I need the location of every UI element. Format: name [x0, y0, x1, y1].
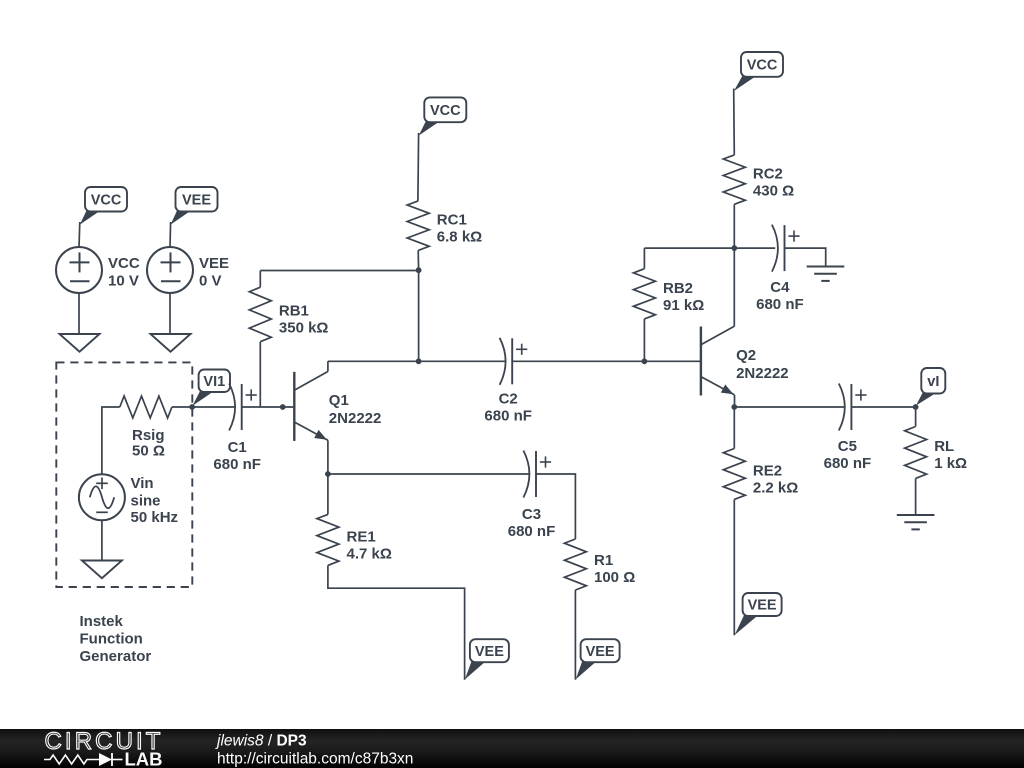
- resistor RE2 2.2 kΩ: [723, 407, 798, 499]
- svg-text:Generator: Generator: [80, 648, 152, 665]
- wire (RE1 to VEE flag): [328, 565, 465, 679]
- svg-text:sine: sine: [131, 493, 161, 510]
- resistor RC2 430 Ω: [723, 155, 794, 248]
- svg-text:680 nF: 680 nF: [756, 296, 804, 313]
- ground (below VCC source): [60, 334, 100, 352]
- net flag VEE (supply): [171, 187, 218, 225]
- net flag vI: [916, 368, 945, 406]
- svg-text:RE1: RE1: [347, 529, 376, 546]
- node (Q1 base junction): [280, 404, 286, 410]
- voltage source Vin sine 50 kHz: [79, 474, 178, 526]
- resistor RB2 91 kΩ: [633, 248, 704, 361]
- net flag VEE (below RE1): [465, 639, 509, 679]
- label Instek Function Generator: [80, 613, 152, 665]
- wire (C3 to R1): [536, 474, 575, 539]
- svg-text:RL: RL: [934, 438, 954, 455]
- net flag VCC (left supply): [80, 187, 127, 225]
- ground (RL): [897, 515, 935, 529]
- svg-text:VEE: VEE: [182, 192, 211, 208]
- wire (VEE flag to source): [169, 222, 172, 247]
- wire (RB2 top to RC2 node): [644, 247, 734, 249]
- svg-text:VEE: VEE: [199, 255, 229, 272]
- net flag VEE (below R1): [576, 639, 620, 679]
- svg-text:C5: C5: [838, 438, 857, 455]
- svg-text:6.8 kΩ: 6.8 kΩ: [437, 228, 482, 245]
- svg-text:R1: R1: [594, 552, 613, 569]
- dashed enclosure: function generator: [56, 362, 192, 587]
- resistor RC1 6.8 kΩ: [407, 201, 482, 270]
- svg-text:100 Ω: 100 Ω: [594, 569, 635, 586]
- wire (RE2 to VEE flag): [733, 499, 735, 635]
- capacitor C3 680 nF: [508, 451, 556, 540]
- capacitor C1 680 nF: [213, 384, 261, 473]
- wire (C2 to Q2 base): [512, 360, 701, 362]
- footer bar: [0, 729, 1024, 768]
- svg-text:0 V: 0 V: [199, 273, 222, 290]
- voltage source VEE 0 V: [147, 247, 229, 293]
- resistor RE1 4.7 kΩ: [317, 474, 392, 565]
- svg-text:vI: vI: [927, 374, 939, 390]
- wire (VCC source to ground): [78, 293, 80, 334]
- capacitor C4 680 nF: [756, 225, 804, 314]
- node (RC2/RB2/C4 junction): [731, 245, 737, 251]
- net flag VEE (below RE2): [735, 593, 782, 635]
- svg-text:jlewis8 / DP3: jlewis8 / DP3: [215, 733, 307, 750]
- wire (VEE source to ground): [169, 293, 171, 334]
- svg-text:4.7 kΩ: 4.7 kΩ: [347, 546, 392, 563]
- svg-text:C3: C3: [522, 506, 541, 523]
- svg-text:VEE: VEE: [475, 644, 504, 660]
- svg-text:1 kΩ: 1 kΩ: [934, 455, 967, 472]
- transistor Q1 2N2222: [294, 361, 381, 474]
- resistor RL 1 kΩ: [905, 407, 967, 478]
- transistor Q2 2N2222: [701, 326, 789, 407]
- svg-text:VCC: VCC: [108, 255, 140, 272]
- wire (Vin to ground): [101, 520, 103, 560]
- svg-text:VI1: VI1: [203, 374, 225, 390]
- ground (below Vin): [82, 561, 122, 579]
- wire (RC1 node to collector rail): [418, 270, 420, 361]
- svg-text:350 kΩ: 350 kΩ: [279, 320, 329, 337]
- svg-text:VCC: VCC: [430, 103, 461, 119]
- svg-text:VEE: VEE: [586, 644, 615, 660]
- wire (Q2 emitter to C5): [734, 406, 845, 408]
- node vI (output junction): [913, 404, 919, 410]
- svg-text:680 nF: 680 nF: [824, 455, 872, 472]
- svg-text:Rsig: Rsig: [132, 427, 165, 444]
- svg-text:2.2 kΩ: 2.2 kΩ: [753, 480, 798, 497]
- resistor R1 100 Ω: [564, 539, 635, 590]
- svg-text:10 V: 10 V: [108, 273, 139, 290]
- svg-text:680 nF: 680 nF: [213, 456, 261, 473]
- wire (C4 to ground): [785, 248, 826, 266]
- net flag VI1: [193, 370, 231, 406]
- wire (VCC flag to source): [78, 222, 81, 247]
- voltage source VCC 10 V: [56, 247, 140, 293]
- wire (Q1 emitter to C3): [328, 473, 530, 475]
- wire (R1 to VEE flag): [574, 590, 576, 680]
- node (Q1 emitter junction): [325, 471, 331, 477]
- node (RB2 junction on base wire): [642, 358, 648, 364]
- wire (collector rail to C2): [328, 360, 506, 362]
- svg-text:VCC: VCC: [91, 192, 122, 208]
- svg-text:430 Ω: 430 Ω: [753, 182, 794, 199]
- svg-text:91 kΩ: 91 kΩ: [663, 297, 704, 314]
- wire (VCC flag to RC2): [733, 89, 736, 155]
- svg-text:RE2: RE2: [753, 463, 782, 480]
- wire (Vin to Rsig): [102, 407, 120, 474]
- svg-text:RC1: RC1: [437, 211, 467, 228]
- svg-text:2N2222: 2N2222: [736, 365, 789, 382]
- wire (RB1 top to RC1 node): [260, 270, 418, 272]
- svg-text:Vin: Vin: [131, 475, 154, 492]
- capacitor C5 680 nF: [824, 384, 872, 473]
- svg-text:Function: Function: [80, 631, 143, 648]
- CircuitLab logo: [44, 728, 164, 768]
- wire (C1 to Q1 base): [242, 406, 295, 408]
- svg-text:50 Ω: 50 Ω: [132, 443, 165, 460]
- svg-text:RB2: RB2: [663, 280, 693, 297]
- wire (RC2 node to C4): [734, 247, 775, 249]
- wire (Rsig to C1): [172, 406, 235, 408]
- svg-text:C4: C4: [770, 279, 790, 296]
- ground (below VEE source): [151, 334, 191, 352]
- svg-text:Q1: Q1: [329, 392, 349, 409]
- svg-text:LAB: LAB: [125, 749, 163, 768]
- wire (RL to ground): [915, 478, 917, 515]
- resistor RB1 350 kΩ: [249, 271, 328, 408]
- svg-text:Q2: Q2: [736, 347, 756, 364]
- svg-text:VEE: VEE: [748, 598, 777, 614]
- svg-text:680 nF: 680 nF: [484, 407, 532, 424]
- node (RC1/RB1 junction): [416, 267, 422, 273]
- svg-text:50 kHz: 50 kHz: [131, 509, 179, 526]
- wire (C5 to output node): [851, 406, 915, 408]
- node (Q2 emitter junction): [731, 404, 737, 410]
- svg-text:680 nF: 680 nF: [508, 523, 556, 540]
- resistor Rsig 50 Ω: [120, 396, 172, 460]
- svg-text:Instek: Instek: [80, 613, 124, 630]
- net flag VCC (above RC1): [419, 97, 467, 135]
- wire (VCC flag to RC1): [417, 133, 420, 201]
- net flag VCC (above RC2): [734, 52, 783, 91]
- svg-text:RC2: RC2: [753, 165, 783, 182]
- svg-text:C1: C1: [228, 439, 247, 456]
- capacitor C2 680 nF: [484, 338, 532, 425]
- footer title jlewis8 / DP3: [215, 733, 307, 750]
- svg-text:2N2222: 2N2222: [329, 410, 382, 427]
- svg-text:C2: C2: [499, 390, 518, 407]
- node (Q1 collector rail junction): [416, 358, 422, 364]
- ground (C4): [807, 267, 845, 281]
- svg-text:VCC: VCC: [747, 58, 778, 74]
- node VI1 junction: [189, 404, 195, 410]
- footer url: [217, 751, 413, 768]
- svg-text:http://circuitlab.com/c87b3xn: http://circuitlab.com/c87b3xn: [217, 751, 413, 768]
- svg-text:RB1: RB1: [279, 303, 309, 320]
- wire (RC2 node to Q2 collector): [733, 248, 735, 326]
